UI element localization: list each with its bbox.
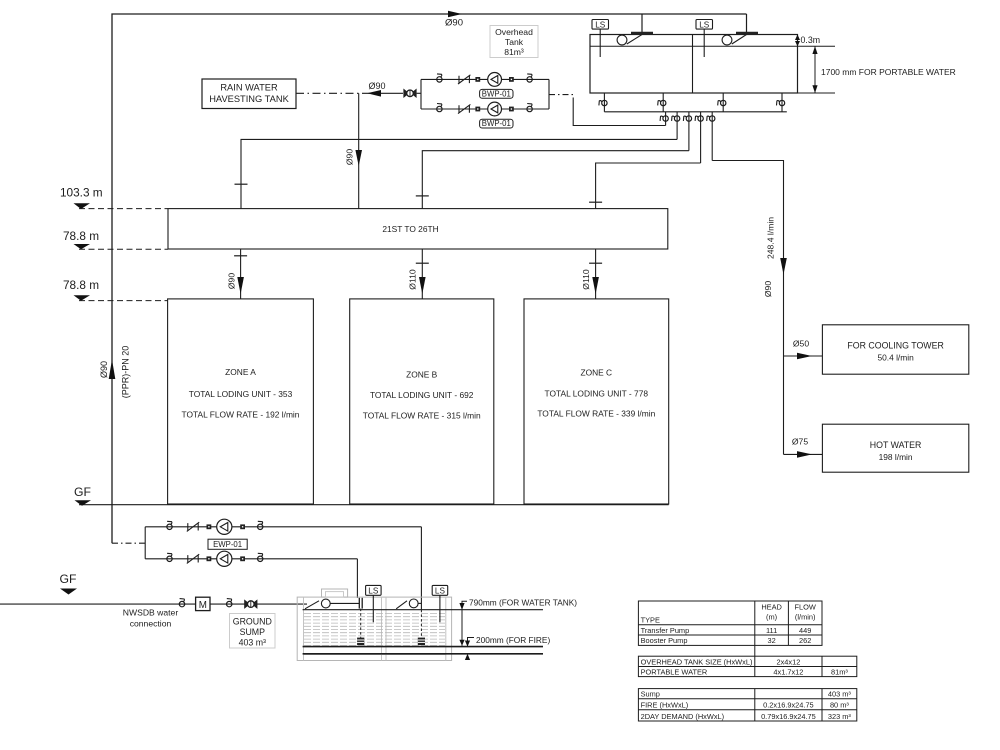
flow arrow down pipe [355, 150, 362, 166]
overhead tank size table [638, 656, 856, 676]
svg-text:1700 mm FOR PORTABLE WATER: 1700 mm FOR PORTABLE WATER [821, 67, 956, 77]
svg-text:81m³: 81m³ [831, 668, 848, 677]
pipe valve C to zone B drop [422, 151, 689, 209]
svg-text:0.79x16.9x24.75: 0.79x16.9x24.75 [761, 712, 816, 721]
booster pump 2 [488, 102, 502, 116]
BWP branch2 coupling 2 [509, 107, 514, 112]
connector line between tables [754, 645, 756, 656]
hot water branch pipe [784, 453, 823, 455]
break bar zone A upper [235, 183, 248, 185]
elevation datum dashed line 78.8 (2) [79, 300, 168, 302]
svg-text:Booster Pump: Booster Pump [641, 636, 688, 645]
break bar zone C upper [589, 201, 602, 203]
ground sump construction outline [297, 597, 451, 660]
elevation datum dashed line 78.8 (1) [79, 248, 168, 250]
GF label lower [60, 572, 78, 595]
ground floor line GF [79, 504, 669, 506]
EWP branch1 outlet valve [258, 521, 263, 529]
float valve inlet bar right [736, 32, 758, 35]
BWP branch2 coupling [475, 107, 480, 112]
svg-text:HAVESTING TANK: HAVESTING TANK [209, 94, 289, 104]
distribution valve C [683, 112, 691, 151]
elevation 78.8 m label (2) [63, 278, 99, 301]
float valve left (arm + ball) [617, 35, 642, 45]
NWSDB gate valve [245, 600, 257, 608]
svg-text:Ø90: Ø90 [99, 361, 109, 378]
zone C feed pipe [589, 249, 602, 299]
svg-text:0.2x16.9x24.75: 0.2x16.9x24.75 [763, 701, 814, 710]
svg-text:198 l/min: 198 l/min [879, 452, 913, 462]
svg-text:GF: GF [60, 572, 77, 586]
gate valve on booster suction [404, 89, 416, 97]
pipe coupling into sump [359, 598, 362, 609]
BWP branch2 isolation valve [437, 104, 442, 112]
svg-text:ZONE B: ZONE B [406, 370, 438, 380]
feed drop pipe right compartment [746, 14, 748, 32]
svg-text:BWP-01: BWP-01 [482, 119, 511, 128]
svg-text:0.3m: 0.3m [801, 35, 821, 45]
svg-text:FOR COOLING TOWER: FOR COOLING TOWER [847, 341, 943, 351]
GF label upper [74, 485, 91, 506]
21st to 26th floors box [168, 209, 668, 249]
float valve right (arm + ball) [722, 35, 746, 45]
flow arrow toward rain water tank [367, 90, 381, 97]
EWP branch2 outlet valve [258, 553, 263, 561]
sump manhole [322, 589, 348, 597]
svg-text:4x1.7x12: 4x1.7x12 [773, 668, 803, 677]
zone B feed pipe [416, 249, 429, 299]
cooling tower box [822, 325, 968, 374]
sump float valve 2 [396, 599, 421, 609]
riser up arrow [109, 360, 116, 380]
BWP branch2 outlet valve [527, 104, 532, 112]
distribution valve E [707, 112, 715, 161]
svg-text:Ø110: Ø110 [581, 269, 591, 290]
hot water branch arrow [797, 451, 812, 458]
hot water box [822, 424, 968, 472]
BWP outlet dash-dot pipe [549, 94, 575, 96]
svg-text:GROUND: GROUND [233, 617, 272, 627]
overhead tank body [590, 35, 798, 94]
ground sump label box [230, 614, 276, 649]
svg-text:TOTAL FLOW RATE - 315 l/min: TOTAL FLOW RATE - 315 l/min [363, 411, 481, 421]
svg-text:403 m³: 403 m³ [239, 638, 266, 648]
svg-text:connection: connection [130, 619, 172, 629]
svg-text:449: 449 [799, 626, 811, 635]
svg-text:103.3 m: 103.3 m [60, 186, 103, 200]
tank outlet valve 3 [718, 93, 726, 112]
transfer pump 1 [217, 519, 232, 534]
dimension 200mm leader [465, 635, 551, 660]
BWP branch1 outlet valve [527, 74, 532, 82]
EWP branch2 suction drop pipe [356, 559, 358, 598]
svg-text:TOTAL LODING UNIT - 353: TOTAL LODING UNIT - 353 [189, 389, 293, 399]
dimension 0.3m [795, 35, 820, 47]
dimension 1700 mm [812, 46, 955, 93]
svg-text:Ø90: Ø90 [368, 81, 385, 91]
svg-text:TOTAL FLOW RATE - 339 l/min: TOTAL FLOW RATE - 339 l/min [537, 409, 655, 419]
svg-text:ZONE A: ZONE A [225, 367, 256, 377]
svg-text:2DAY DEMAND (HxWxL): 2DAY DEMAND (HxWxL) [641, 712, 725, 721]
zone A feed pipe [234, 249, 247, 299]
svg-text:(l/min): (l/min) [795, 613, 816, 622]
EWP branch2 coupling [207, 556, 212, 561]
sump level switch LS2 [432, 585, 448, 622]
EWP-01 pump set headers [145, 527, 421, 559]
pipe to booster suction [362, 92, 403, 94]
svg-text:Ø90: Ø90 [345, 149, 355, 165]
EWP branch2 isolation valve [167, 553, 172, 561]
elevation 78.8 m label (1) [63, 229, 99, 249]
pipe valve B to zone A drop [241, 139, 677, 208]
overhead tank label box [490, 26, 538, 58]
BWP branch1 check valve [458, 75, 470, 84]
svg-text:NWSDB water: NWSDB water [123, 608, 179, 618]
feed drop pipe left compartment [641, 14, 643, 32]
down pipe to 21st-26th floors [358, 93, 360, 208]
svg-text:TOTAL LODING UNIT - 778: TOTAL LODING UNIT - 778 [545, 389, 649, 399]
svg-text:81m³: 81m³ [504, 47, 524, 57]
sump fire reserve line [303, 646, 543, 648]
svg-text:50.4 l/min: 50.4 l/min [877, 353, 914, 363]
suction drop dashed 2 [420, 610, 422, 638]
svg-text:Ø110: Ø110 [408, 269, 418, 290]
label BWP-01 lower [480, 119, 513, 128]
level switch LS2 overhead tank [696, 20, 713, 58]
booster pump 1 [488, 73, 502, 87]
svg-text:(m): (m) [766, 613, 777, 622]
svg-text:Ø90: Ø90 [445, 18, 463, 29]
svg-text:21ST TO 26TH: 21ST TO 26TH [382, 224, 438, 234]
NWSDB valve 1 [179, 599, 184, 607]
svg-text:LS: LS [595, 20, 606, 29]
svg-text:HOT WATER: HOT WATER [870, 440, 922, 450]
svg-text:EWP-01: EWP-01 [213, 540, 242, 549]
EWP branch1 isolation valve [167, 521, 172, 529]
sump water level line [303, 609, 543, 611]
cooling branch arrow [797, 353, 812, 360]
svg-text:78.8 m: 78.8 m [63, 278, 99, 292]
EWP branch1 check valve [187, 522, 199, 531]
tank outlet valve 2 [658, 93, 666, 112]
svg-text:80 m³: 80 m³ [830, 701, 849, 710]
svg-text:GF: GF [74, 485, 91, 499]
svg-text:OVERHEAD TANK SIZE (HxWxL): OVERHEAD TANK SIZE (HxWxL) [641, 657, 753, 666]
svg-text:TYPE: TYPE [641, 615, 660, 624]
dash-dot pipe from rain water tank [296, 92, 362, 94]
outlet header pipe [604, 111, 786, 113]
overhead tank water level line [590, 45, 835, 47]
zone C box [524, 299, 669, 504]
svg-text:262: 262 [799, 636, 811, 645]
svg-text:HEAD: HEAD [761, 603, 782, 612]
sump volume table [638, 689, 856, 721]
zone A box [168, 299, 314, 504]
break bar zone B upper [416, 195, 429, 197]
svg-text:790mm (FOR WATER TANK): 790mm (FOR WATER TANK) [469, 598, 577, 608]
sump bottom line [303, 653, 543, 655]
pipe gate valve to BWP header [417, 92, 421, 94]
label EWP-01 [208, 539, 247, 549]
EWP branch1 coupling 2 [240, 524, 245, 529]
EWP branch2 check valve [187, 554, 199, 563]
overhead tank bottom extension line [798, 92, 836, 94]
svg-text:TOTAL FLOW RATE - 192 l/min: TOTAL FLOW RATE - 192 l/min [182, 410, 300, 420]
svg-text:(PPR)-PN 20: (PPR)-PN 20 [121, 346, 131, 399]
svg-text:PORTABLE WATER: PORTABLE WATER [641, 668, 708, 677]
svg-text:403 m³: 403 m³ [828, 690, 852, 699]
sump level switch LS1 [366, 585, 382, 622]
svg-text:111: 111 [766, 626, 777, 635]
svg-text:ZONE C: ZONE C [580, 368, 612, 378]
BWP branch1 coupling 2 [509, 77, 514, 82]
right main down arrow [780, 258, 787, 275]
svg-text:78.8 m: 78.8 m [63, 229, 99, 243]
BWP branch2 check valve [458, 104, 470, 113]
svg-text:Ø50: Ø50 [793, 339, 809, 349]
transfer pump 2 [217, 551, 232, 566]
distribution valve A [660, 112, 668, 126]
tank outlet valve 1 [599, 93, 607, 112]
svg-text:TOTAL LODING UNIT - 692: TOTAL LODING UNIT - 692 [370, 390, 474, 400]
main riser pipe [112, 14, 747, 543]
svg-text:Ø90: Ø90 [227, 273, 237, 289]
distribution valve D [695, 112, 703, 163]
pump schedule table [638, 601, 822, 645]
svg-text:32: 32 [767, 636, 775, 645]
dimension 790mm leader [459, 598, 577, 646]
svg-text:248.4 l/min: 248.4 l/min [766, 217, 776, 259]
water meter M [196, 597, 210, 611]
elevation datum dashed line 103.3 [79, 208, 168, 210]
EWP suction dash-dot pipe [112, 542, 145, 544]
svg-text:SUMP: SUMP [240, 627, 266, 637]
suction strainer 2 [418, 638, 425, 645]
svg-text:Tank: Tank [505, 37, 524, 47]
EWP branch1 coupling [207, 524, 212, 529]
suction strainer 1 [357, 638, 364, 645]
svg-text:Overhead: Overhead [495, 27, 533, 37]
NWSDB label [123, 608, 179, 629]
cooling tower branch pipe [784, 355, 823, 357]
svg-text:FLOW: FLOW [795, 603, 816, 612]
distribution valve B [672, 112, 680, 140]
rain water harvesting tank box [202, 79, 296, 109]
pipe from BWP outlet to valve A [573, 98, 665, 126]
sump float valve 1 [305, 599, 359, 609]
NWSDB incoming main [0, 603, 307, 605]
float valve inlet bar left [631, 32, 653, 35]
svg-text:LS: LS [699, 20, 710, 29]
svg-text:323 m³: 323 m³ [828, 712, 852, 721]
tank outlet valve 4 [777, 93, 785, 112]
svg-text:LS: LS [368, 586, 379, 595]
suction drop dashed 1 [360, 609, 362, 638]
NWSDB valve 2 [227, 599, 232, 607]
svg-text:LS: LS [435, 586, 446, 595]
svg-text:BWP-01: BWP-01 [482, 89, 511, 98]
BWP branch1 isolation valve [437, 74, 442, 82]
EWP branch1 suction drop pipe [420, 527, 422, 610]
elevation 103.3 m label [60, 186, 103, 210]
zone B box [350, 299, 494, 504]
svg-text:200mm (FOR FIRE): 200mm (FOR FIRE) [476, 635, 550, 645]
svg-text:2x4x12: 2x4x12 [776, 657, 800, 666]
svg-text:Sump: Sump [641, 690, 660, 699]
flow arrow on top feed line [448, 11, 462, 18]
BWP branch1 coupling [475, 77, 480, 82]
BWP-01 pump set headers [421, 79, 549, 109]
EWP branch2 coupling 2 [240, 556, 245, 561]
svg-text:Ø75: Ø75 [792, 437, 808, 447]
pipe valve D to zone C drop [596, 163, 701, 209]
svg-text:RAIN WATER: RAIN WATER [220, 83, 278, 93]
label BWP-01 upper [480, 89, 513, 98]
level switch LS1 overhead tank [592, 20, 609, 58]
svg-text:Transfer Pump: Transfer Pump [641, 626, 690, 635]
pipe valve E to right main [712, 161, 783, 455]
sump water hatch lines [304, 614, 445, 646]
svg-text:FIRE (HxWxL): FIRE (HxWxL) [641, 701, 689, 710]
svg-text:M: M [199, 600, 207, 611]
svg-text:Ø90: Ø90 [763, 281, 773, 297]
